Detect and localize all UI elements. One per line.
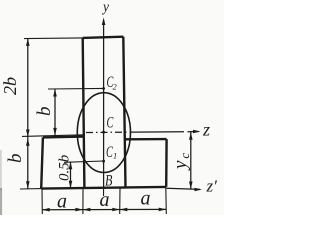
z axis dash-dot through C [86, 131, 134, 133]
lower b dimension line [27, 137, 29, 189]
svg-text:1: 1 [113, 151, 117, 161]
stem left edge [83, 38, 85, 189]
svg-text:yc: yc [170, 151, 192, 171]
inertia ellipse at centroid C [77, 93, 130, 173]
svg-text:a: a [100, 189, 110, 211]
scan edge smudge [0, 150, 2, 190]
T-section outline: stem top edge [83, 37, 124, 38]
point C dot [102, 131, 105, 134]
svg-text:a: a [141, 188, 151, 210]
2b label [0, 77, 20, 95]
inner b dimension line [54, 89, 56, 135]
point C1 dot [102, 160, 105, 163]
y_c dimension line [190, 132, 192, 189]
stem right edge [123, 37, 125, 188]
left flange left edge [41, 137, 43, 188]
svg-text:y: y [101, 0, 109, 16]
0.5b label [57, 154, 73, 181]
bottom extension lines [41, 189, 43, 214]
svg-text:b: b [34, 107, 55, 117]
svg-text:C: C [107, 115, 114, 132]
section bottom edge [41, 187, 166, 189]
z axis solid part [134, 131, 184, 133]
right flange top edge [125, 138, 167, 141]
svg-text:a: a [57, 191, 67, 213]
svg-text:2b: 2b [0, 77, 20, 95]
svg-text:2: 2 [113, 82, 118, 92]
z' axis through B [166, 188, 200, 189]
svg-text:b: b [5, 154, 26, 164]
y axis [103, 20, 105, 188]
svg-text:B: B [105, 173, 113, 190]
svg-text:0.5b: 0.5b [57, 154, 73, 181]
flange-top extension line [22, 135, 84, 137]
B extension tick [103, 189, 105, 196]
y axis arrowhead [102, 18, 106, 26]
lower b label [5, 154, 26, 164]
C2 extension line [48, 87, 104, 90]
svg-text:z: z [202, 120, 210, 140]
top extension line [24, 37, 83, 40]
bottom-left extension line [20, 188, 41, 190]
y_c label [170, 151, 192, 171]
svg-text:z′: z′ [206, 177, 218, 196]
0.5b dimension line [70, 162, 72, 189]
right flange right edge [165, 139, 168, 187]
C1 extension line [64, 161, 104, 162]
inner b label [34, 107, 55, 117]
bottom dimension line a|a|a [42, 208, 166, 210]
z axis arrowhead [193, 130, 201, 134]
z' axis arrowhead [195, 188, 203, 192]
point C2 dot [102, 87, 105, 90]
left flange top edge [43, 135, 84, 138]
2b dimension line [27, 38, 29, 137]
